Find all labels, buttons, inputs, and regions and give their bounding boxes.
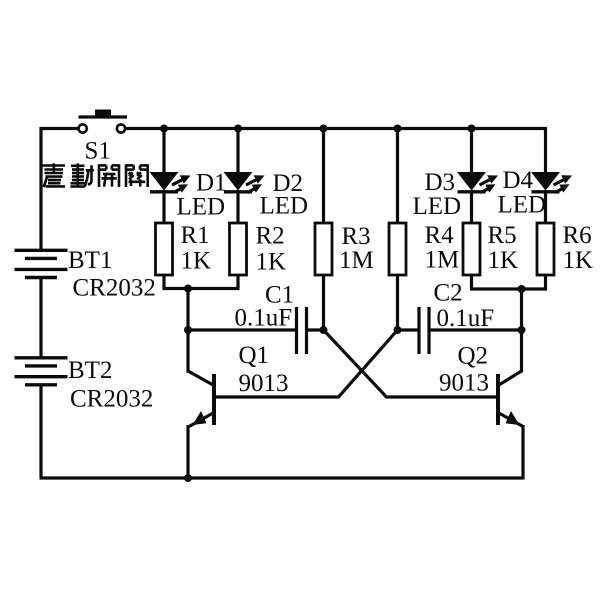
震: [43, 163, 66, 187]
svg-text:0.1uF: 0.1uF: [235, 305, 293, 332]
node: emitter-ground junction: [184, 474, 192, 482]
svg-text:LED: LED: [498, 192, 547, 219]
wire: top rail left segment: [41, 129, 78, 251]
svg-text:LED: LED: [260, 193, 309, 220]
svg-text:BT2: BT2: [68, 357, 112, 384]
svg-text:9013: 9013: [239, 370, 289, 397]
wire: R4 branch top: [396, 129, 399, 224]
transistor Q2: [498, 371, 523, 427]
svg-text:1M: 1M: [425, 247, 460, 274]
wire: D3 to R5: [470, 190, 473, 223]
svg-text:1K: 1K: [256, 249, 287, 276]
svg-text:R3: R3: [342, 223, 371, 250]
wire: D1 branch: [162, 129, 165, 173]
wire: R5 bottom stub: [470, 275, 473, 289]
resistor R5: [463, 223, 480, 275]
battery BT2: [15, 358, 68, 385]
wire: D2 to R2: [236, 190, 239, 223]
wire: battery link: [39, 278, 42, 358]
wire: Q1 node to C1: [188, 328, 297, 331]
svg-text:LED: LED: [413, 193, 462, 220]
label 震動開關 (drawn strokes): [43, 163, 148, 187]
svg-text:0.1uF: 0.1uF: [437, 305, 495, 332]
battery BT1: [15, 250, 68, 277]
wire: left rail down to bottom: [39, 385, 42, 478]
wire: C1 to R3 node: [307, 328, 324, 331]
svg-text:R1: R1: [181, 222, 210, 249]
wire: Q1 collector vertical: [186, 330, 189, 373]
svg-text:R6: R6: [563, 222, 592, 249]
svg-text:CR2032: CR2032: [70, 386, 153, 413]
resistor R1: [156, 223, 173, 275]
wire: Q2 emitter vertical: [521, 425, 524, 480]
svg-text:BT1: BT1: [68, 247, 112, 274]
wire: junction down to C2 level: [520, 289, 523, 330]
svg-text:LED: LED: [177, 194, 226, 221]
transistor Q1: [188, 371, 214, 427]
node: R4-C2 junction: [394, 326, 402, 334]
node: R3-C1 junction: [320, 326, 328, 334]
wire: top rail right segment to D4 corner: [125, 129, 545, 173]
關: [126, 164, 148, 187]
wire: R3 branch top: [322, 129, 325, 224]
diode D3: [457, 172, 498, 193]
svg-text:D4: D4: [503, 167, 534, 194]
wire: R2 bottom stub: [236, 275, 239, 289]
svg-text:S1: S1: [85, 138, 111, 165]
wire: D1 to R1: [162, 190, 165, 223]
capacitor C1: [297, 307, 307, 354]
resistor R2: [230, 223, 247, 275]
wire: C2 to Q2 node: [429, 328, 522, 331]
svg-text:Q1: Q1: [239, 342, 270, 369]
svg-text:CR2032: CR2032: [73, 275, 156, 302]
svg-text:R4: R4: [425, 222, 455, 249]
resistor R4: [389, 223, 406, 275]
wire: cross coupling R4 node to Q1 base: [215, 330, 398, 397]
svg-text:R2: R2: [256, 223, 285, 250]
wire: R5-R6 bottom link: [470, 287, 547, 290]
wire: bottom rail: [40, 476, 524, 479]
wire: D3 branch: [470, 129, 473, 173]
svg-text:Q2: Q2: [458, 343, 489, 370]
node: Q1 collector node: [184, 326, 192, 334]
node: top rail junction dots: [160, 125, 168, 133]
svg-text:1K: 1K: [563, 247, 594, 274]
wire: R4 node to C2: [398, 328, 420, 331]
wire: R6 bottom stub: [544, 275, 547, 289]
node: Q2 collector node: [518, 326, 526, 334]
resistor R6: [537, 223, 554, 275]
開: [99, 164, 119, 187]
switch S1: [79, 110, 128, 133]
svg-text:D3: D3: [425, 169, 456, 196]
svg-text:D1: D1: [196, 170, 227, 197]
resistor R3: [315, 223, 332, 275]
svg-text:9013: 9013: [439, 370, 489, 397]
wire: R4 bottom: [396, 275, 399, 330]
wire: R1 bottom stub: [162, 275, 165, 289]
svg-text:1K: 1K: [181, 248, 212, 275]
node: R1R2 junction: [184, 285, 192, 293]
node: R5R6 junction: [518, 285, 526, 293]
wire: D2 branch: [236, 129, 239, 173]
wire: Q2 collector vertical: [520, 330, 523, 373]
wire: R3 bottom: [322, 275, 325, 330]
diode D4: [531, 172, 572, 193]
diode D1: [150, 172, 191, 193]
wire: D4 to R6: [544, 190, 547, 223]
動: [71, 163, 94, 186]
wire: Q1 emitter vertical: [186, 425, 189, 478]
diode D2: [224, 172, 265, 193]
svg-text:1M: 1M: [339, 247, 374, 274]
wire: junction down to C1 level: [186, 289, 189, 331]
svg-text:C2: C2: [434, 280, 463, 307]
wire: cross coupling R3 node to Q2 base: [324, 330, 498, 397]
capacitor C2: [419, 307, 429, 354]
svg-text:1K: 1K: [488, 247, 519, 274]
wire: R1-R2 bottom link: [163, 287, 240, 290]
svg-text:R5: R5: [488, 222, 517, 249]
